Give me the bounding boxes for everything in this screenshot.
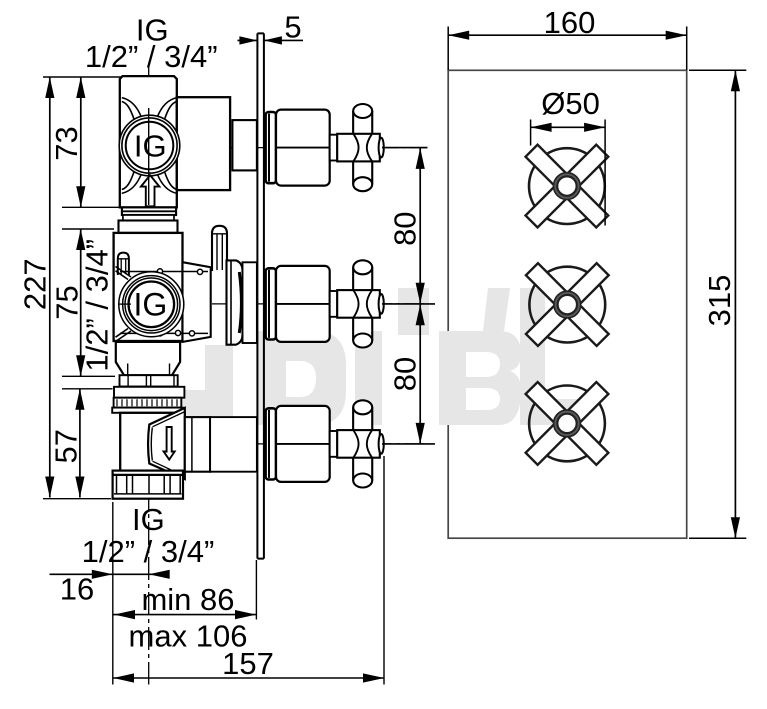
handle side view 3 bbox=[266, 400, 384, 487]
svg-text:57: 57 bbox=[49, 429, 84, 463]
extension line y229 bbox=[62, 228, 114, 230]
svg-text:80: 80 bbox=[387, 211, 422, 245]
dim 57 bottom arrow bbox=[75, 477, 84, 498]
middle valve lower section bbox=[116, 342, 180, 375]
dimension 5 lines bbox=[238, 39, 304, 41]
watermark logo letter i bbox=[355, 331, 382, 425]
extension line y388.8 bbox=[62, 388, 113, 390]
dim 75 bottom arrow bbox=[76, 355, 85, 376]
watermark registered mark bbox=[544, 282, 556, 294]
svg-text:80: 80 bbox=[387, 357, 422, 391]
dim 73 top arrow bbox=[76, 77, 85, 98]
horizontal centerline bottom handle bbox=[180, 443, 427, 445]
wall plate side view bbox=[257, 33, 264, 558]
bottom valve top nut band C bbox=[112, 408, 183, 413]
svg-text:IG: IG bbox=[132, 502, 165, 537]
dimension 227 line bbox=[49, 77, 51, 498]
connector ring 1 bbox=[122, 207, 176, 215]
dim D50 left arrow bbox=[531, 123, 552, 132]
connector nut bbox=[119, 221, 178, 233]
dimension 16 line bbox=[50, 573, 165, 575]
extension line top (y77) bbox=[43, 76, 121, 78]
dim 160 left arrow bbox=[448, 31, 469, 40]
middle valve pin details bbox=[212, 234, 227, 270]
knurl marks bbox=[117, 399, 177, 406]
middle valve center tick left bbox=[118, 303, 131, 305]
dim D50 right arrow bbox=[584, 123, 605, 132]
dimension 160 extension lines bbox=[448, 27, 687, 71]
dim 80b bottom arrow bbox=[416, 423, 425, 444]
dim 57 top arrow bbox=[75, 389, 84, 410]
bottom valve body bbox=[120, 413, 185, 471]
watermark apostrophe bbox=[483, 288, 510, 331]
watermark blob lower left bbox=[205, 345, 233, 457]
dim 80 connector line top bbox=[382, 147, 427, 149]
dimension D50 extension lines bbox=[531, 120, 606, 226]
dim 80 vertical line bbox=[419, 148, 421, 444]
middle valve left stub details bbox=[118, 259, 129, 274]
svg-text:5: 5 bbox=[284, 10, 301, 45]
lower nut bottom line bbox=[114, 493, 182, 495]
bottom valve funnel bbox=[148, 408, 185, 479]
handle cross front view 2 bbox=[497, 234, 638, 375]
middle valve gussets bbox=[116, 267, 132, 342]
watermark logo letter B bbox=[439, 331, 521, 425]
dimension 315 extension lines bbox=[689, 70, 746, 538]
dimension 315 line bbox=[734, 70, 736, 538]
extension line y207 bbox=[62, 206, 119, 208]
bottom valve cylinder to plate bbox=[210, 417, 257, 472]
dim 227 top arrow bbox=[45, 77, 54, 98]
extension line plate front bbox=[255, 560, 257, 620]
barrel dark edge bbox=[239, 272, 241, 333]
front wall plate bbox=[448, 70, 687, 538]
bottom valve lower nut bbox=[113, 471, 183, 499]
funnel inner mouth line bbox=[151, 428, 152, 461]
bottom valve flow arrow down bbox=[164, 427, 175, 460]
handle cross front view 1 bbox=[496, 115, 637, 256]
dimension 75 line bbox=[80, 229, 82, 376]
top valve flow arrow up bbox=[141, 175, 160, 206]
middle valve hex line top bbox=[120, 271, 208, 273]
top valve cap nut circles bbox=[119, 115, 180, 176]
svg-text:1/2” / 3/4”: 1/2” / 3/4” bbox=[82, 534, 215, 569]
dim min86 right arrow bbox=[235, 610, 256, 619]
svg-text:1/2” / 3/4”: 1/2” / 3/4” bbox=[80, 239, 115, 372]
middle valve right extension bbox=[183, 262, 211, 342]
hex bump dots bbox=[157, 269, 162, 274]
dim 75 top arrow bbox=[76, 229, 85, 250]
top valve centerline segment bbox=[148, 108, 150, 205]
svg-text:157: 157 bbox=[222, 646, 274, 681]
dim 80b top arrow bbox=[416, 304, 425, 325]
dim 80 connector line bottom bbox=[382, 443, 435, 445]
dimension 57 line bbox=[79, 389, 81, 498]
top valve body bbox=[120, 76, 177, 207]
dim 16 right arrow bbox=[149, 570, 170, 579]
dimension 160 line bbox=[448, 34, 687, 36]
top valve stub cylinder bbox=[232, 120, 257, 170]
dim 227 bottom arrow bbox=[45, 477, 54, 498]
middle valve pin right bbox=[212, 226, 227, 271]
lower nut top thick line bbox=[113, 474, 183, 476]
watermark logo letter D bbox=[258, 331, 346, 425]
bottom valve top nut band B knurled bbox=[114, 398, 182, 408]
dimension min86 line bbox=[114, 614, 257, 616]
dim 315 top arrow bbox=[731, 70, 740, 91]
dim 5 right arrow bbox=[264, 36, 282, 44]
horizontal centerline middle handle bbox=[212, 303, 427, 305]
svg-text:IG: IG bbox=[134, 287, 168, 323]
top valve housing bbox=[177, 97, 230, 190]
bottom valve top nut band A bbox=[114, 387, 184, 398]
dim min86 left arrow bbox=[114, 610, 135, 619]
svg-text:160: 160 bbox=[544, 5, 596, 40]
svg-text:Ø50: Ø50 bbox=[541, 86, 600, 121]
vertical centerline of valve stack bbox=[148, 67, 150, 685]
extension line y376 bbox=[62, 375, 115, 377]
dim 157 left arrow bbox=[113, 673, 134, 682]
barrel inner ring line bbox=[230, 261, 232, 345]
funnel inner slant lines bbox=[153, 412, 185, 477]
dim 157 right arrow bbox=[363, 673, 384, 682]
middle valve cartridge barrel bbox=[227, 260, 243, 344]
dimension 73 line bbox=[80, 77, 82, 207]
dimension 157 line bbox=[113, 677, 384, 679]
watermark logo letter L bbox=[520, 288, 578, 425]
dim 80a bottom arrow bbox=[416, 283, 425, 304]
middle valve hex line bottom bbox=[120, 332, 208, 334]
svg-text:16: 16 bbox=[60, 571, 94, 606]
bottom cartridge inner line bbox=[191, 417, 193, 471]
middle valve cap nut circles bbox=[119, 272, 184, 337]
svg-text:IG: IG bbox=[134, 129, 167, 164]
lower nut verticals bbox=[117, 476, 181, 494]
handle side view 1 bbox=[266, 104, 384, 191]
svg-text:227: 227 bbox=[18, 258, 53, 310]
handle cross front view 3 bbox=[496, 353, 637, 494]
dim 5 left arrow bbox=[239, 36, 257, 44]
connector ring 1 inner line bbox=[122, 210, 176, 212]
svg-text:315: 315 bbox=[702, 275, 737, 327]
dim 16 left arrow bbox=[92, 570, 113, 579]
extension line handle tip bbox=[383, 456, 385, 685]
middle valve left stub bbox=[118, 253, 129, 275]
bottom valve cartridge bbox=[185, 417, 210, 472]
connector ring 2 bbox=[123, 215, 174, 221]
lower ring band bbox=[120, 375, 178, 386]
top valve horn curves bbox=[122, 98, 177, 194]
middle valve body bbox=[114, 233, 183, 341]
dim 80a top arrow bbox=[416, 148, 425, 169]
middle valve cylinder to plate bbox=[243, 262, 257, 343]
svg-text:1/2” / 3/4”: 1/2” / 3/4” bbox=[85, 39, 218, 74]
lower ring band verticals bbox=[128, 376, 174, 387]
dim 80 connector line middle bbox=[382, 303, 435, 305]
dim 160 right arrow bbox=[666, 31, 687, 40]
handle side view 2 bbox=[266, 260, 384, 347]
horizontal centerline top handle bbox=[186, 147, 427, 149]
dim 315 bottom arrow bbox=[731, 517, 740, 538]
svg-text:73: 73 bbox=[49, 126, 84, 160]
dimension D50 line bbox=[531, 126, 606, 128]
lower section inner lines bbox=[128, 364, 170, 376]
extension line x112.8 bbox=[112, 502, 114, 685]
svg-text:min 86: min 86 bbox=[141, 582, 234, 617]
extension line y498.7 bbox=[43, 498, 111, 500]
dim 73 bottom arrow bbox=[76, 186, 85, 207]
